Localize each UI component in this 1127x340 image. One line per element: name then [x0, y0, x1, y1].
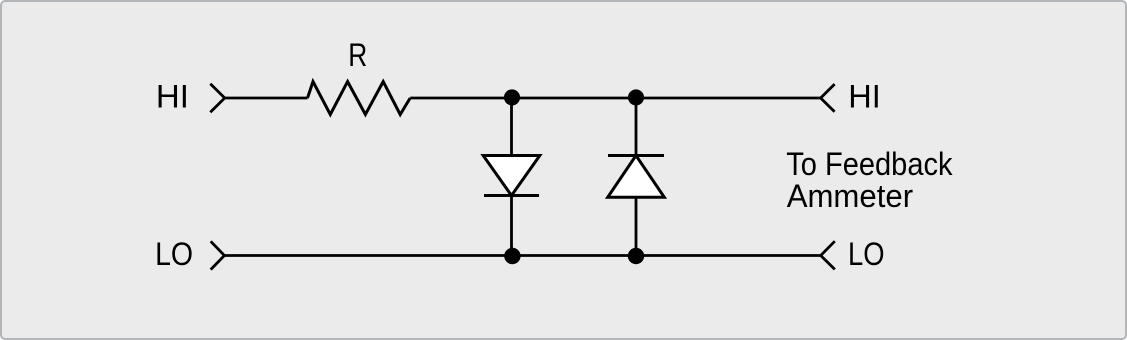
junction node top-left [504, 89, 520, 105]
svg-text:LO: LO [155, 236, 193, 272]
resistor R [308, 82, 411, 115]
svg-text:HI: HI [156, 79, 189, 115]
wire left diode bottom lead [510, 196, 513, 256]
junction node top-right [628, 89, 644, 105]
terminal chevron LO right [821, 241, 835, 269]
wire bottom [224, 254, 820, 257]
svg-text:To Feedback: To Feedback [786, 146, 953, 182]
wire left diode top lead [510, 98, 513, 156]
svg-text:R: R [348, 37, 367, 73]
wire top right segment [410, 97, 820, 100]
diode D1 (cathode down) [483, 156, 540, 196]
svg-text:Ammeter: Ammeter [787, 178, 914, 214]
svg-text:HI: HI [848, 79, 881, 115]
wire right diode top lead [635, 98, 638, 156]
svg-text:LO: LO [848, 236, 885, 272]
wire top left segment [225, 97, 308, 100]
junction node bottom-right [628, 248, 644, 264]
terminal chevron HI right [821, 84, 835, 112]
terminal chevron LO left [211, 241, 225, 269]
junction node bottom-left [504, 248, 520, 264]
diode D2 (cathode up) [608, 156, 665, 198]
wire right diode bottom lead [635, 197, 638, 255]
terminal chevron HI left [210, 84, 224, 112]
